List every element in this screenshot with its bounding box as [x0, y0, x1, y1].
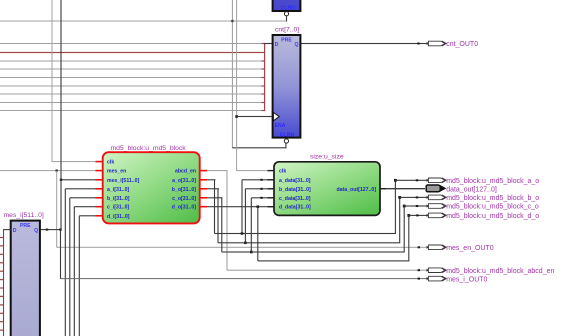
wire cnt Q to pin [301, 43, 427, 44]
svg-text:PRE: PRE [20, 223, 31, 229]
component md5_block:u_md5_block [96, 145, 208, 224]
svg-text:D: D [275, 42, 279, 48]
svg-text:clk: clk [279, 169, 286, 175]
wire cnt bit line 7 [0, 102, 262, 103]
pin md5 b_o [427, 195, 540, 202]
node mes_i collector stubs [0, 237, 3, 331]
wire a_o pin horizontal [395, 180, 427, 181]
node junction ena [235, 115, 238, 118]
node arrow c_o pin [416, 205, 418, 207]
svg-text:ENA: ENA [275, 123, 286, 129]
wire cnt feedback line q [0, 43, 262, 44]
wire clk vertical [52, 0, 53, 162]
ground bubble cnt clrn [284, 139, 288, 143]
node arrow d_o pin [416, 214, 418, 216]
wire bubble drop from top flip-flop [286, 16, 287, 22]
node corner a_o [394, 179, 397, 182]
wire d_o bottom run [258, 260, 410, 261]
node corner d_o [407, 214, 410, 217]
svg-text:a_data[31..0]: a_data[31..0] [279, 178, 311, 184]
wire d_o rise to pin [408, 215, 409, 261]
wire mes_en branch vertical [56, 171, 57, 248]
wire d_o pin horizontal [409, 215, 427, 216]
wire cnt bit line 5 [0, 86, 262, 87]
wire cnt bit line 6 [0, 94, 262, 95]
wire cnt bit line 4 [0, 77, 262, 78]
svg-text:mes_i[511..0]: mes_i[511..0] [107, 178, 140, 184]
node arrow mes_i pin [418, 278, 420, 280]
node junction mes_i branch [59, 228, 61, 230]
wire md5 mes_i horizontal [61, 179, 97, 180]
wire a_o from md5 [207, 179, 216, 180]
wire b_data rise [245, 189, 246, 243]
node arrow mes_en pin [418, 246, 420, 248]
node red collector stubs [262, 43, 266, 111]
wire red collector vertical [264, 43, 265, 111]
wire c_i horizontal [74, 206, 96, 207]
node corner b_o [398, 196, 401, 199]
wire b_i vertical [69, 198, 70, 336]
svg-text:md5_block:u_md5_block_abcd_en: md5_block:u_md5_block_abcd_en [446, 268, 554, 275]
wire cnt bubble drop [285, 143, 286, 148]
wire mes_i down branch [60, 230, 61, 279]
wire c_data rise [251, 198, 252, 252]
wire clrn vertical [232, 0, 233, 148]
node corner c_o [403, 205, 406, 208]
wire red selected net [0, 52, 265, 53]
wire c_o rise to pin [404, 206, 405, 252]
pin md5 c_o [427, 204, 539, 211]
node arrow a_o pin [416, 179, 418, 181]
pin md5 a_o [427, 178, 540, 185]
svg-text:a_o[31..0]: a_o[31..0] [172, 178, 196, 184]
node junction clrn [231, 20, 233, 22]
node arrow cnt Q [417, 43, 419, 45]
node arrow c_data [260, 197, 262, 199]
wire ena clk vertical [236, 0, 237, 171]
component size:u_size [268, 153, 387, 215]
node junction d branch [257, 205, 260, 208]
pin mes_en_OUT0 [427, 245, 494, 252]
svg-text:md5_block:u_md5_block_d_o: md5_block:u_md5_block_d_o [446, 213, 539, 220]
svg-text:D: D [13, 228, 17, 234]
wire b_o from md5 [207, 188, 220, 189]
svg-text:cnt[7..0]: cnt[7..0] [275, 27, 299, 34]
wire clrn net horizontal [0, 21, 287, 22]
register cnt[7..0] [273, 27, 301, 139]
wire c_o bottom run [222, 251, 405, 252]
svg-text:Q: Q [34, 228, 38, 234]
svg-text:CLRN: CLRN [281, 6, 296, 12]
node junction mes_en branch [56, 169, 58, 171]
svg-text:md5_block:u_md5_block: md5_block:u_md5_block [111, 145, 187, 152]
wire mes_i collector vertical [3, 230, 4, 336]
svg-text:Q: Q [295, 42, 299, 48]
svg-text:b_o[31..0]: b_o[31..0] [172, 187, 196, 193]
svg-text:cnt_OUT0: cnt_OUT0 [446, 41, 478, 48]
wire d_i horizontal [79, 215, 96, 216]
svg-text:c_data[31..0]: c_data[31..0] [279, 196, 311, 202]
svg-text:d_i[31..0]: d_i[31..0] [107, 214, 130, 220]
wire c_data horizontal [251, 197, 274, 198]
svg-text:b_data[31..0]: b_data[31..0] [279, 187, 311, 193]
wire a_o drop [214, 180, 215, 234]
wire cnt bit line 8 [0, 110, 262, 111]
svg-text:mes_en_OUT0: mes_en_OUT0 [446, 245, 494, 252]
svg-text:size:u_size: size:u_size [310, 153, 344, 160]
svg-text:data_out[127..0]: data_out[127..0] [337, 187, 377, 193]
wire abcd_en horizontal [207, 170, 228, 171]
wire c_o pin horizontal [404, 205, 427, 206]
svg-text:md5_block:u_md5_block_a_o: md5_block:u_md5_block_a_o [446, 178, 539, 185]
wire a_o bottom run [215, 233, 396, 234]
svg-text:mes_i_OUT0: mes_i_OUT0 [446, 276, 487, 283]
wire a_data horizontal [242, 179, 274, 180]
wire c_o from md5 [207, 197, 223, 198]
pin mes_i_OUT0 [427, 276, 488, 283]
wire b_o bottom run [218, 242, 400, 243]
wire mes_i Q output [40, 229, 61, 230]
svg-text:mes_i[511..0]: mes_i[511..0] [4, 212, 44, 219]
svg-text:PRE: PRE [281, 38, 292, 44]
wire abcd_en run to pin [227, 270, 427, 271]
register top flip-flop (cut) [273, 0, 301, 12]
wire b_data horizontal [245, 188, 274, 189]
wire b_o rise to pin [399, 197, 400, 242]
wire d_o drop [257, 207, 258, 261]
svg-text:d_o[31..0]: d_o[31..0] [172, 205, 196, 211]
wire mes_i D input [3, 229, 11, 230]
wire cnt D input [264, 43, 273, 44]
wire mes_en run to pin [57, 247, 428, 248]
wire a_data rise [241, 180, 242, 234]
svg-text:CLRN: CLRN [280, 133, 295, 139]
svg-text:md5_block:u_md5_block_c_o: md5_block:u_md5_block_c_o [446, 204, 539, 211]
wire clrn to cnt bubble [232, 147, 286, 148]
svg-text:clk: clk [107, 160, 114, 166]
wire c_o drop [221, 198, 222, 252]
wire cnt ena horizontal [237, 116, 272, 117]
wire md5 clk horizontal [52, 161, 97, 162]
wire mes_i run to pin [61, 278, 428, 279]
svg-text:data_out[127..0]: data_out[127..0] [446, 186, 497, 193]
node junction b branch [244, 242, 247, 245]
wire mes_i vertical dark [60, 0, 61, 230]
svg-text:abcd_en: abcd_en [175, 169, 196, 175]
pin data_out bus [426, 185, 497, 193]
pin md5 abcd_en [427, 268, 555, 275]
ground bubble top flip-flop [284, 12, 288, 16]
wire d_o straight to d_data [207, 206, 275, 207]
wire b_o pin horizontal [400, 197, 427, 198]
svg-text:mes_en: mes_en [107, 169, 126, 175]
register mes_i[511..0] [4, 212, 44, 336]
wire a_o rise to pin [395, 180, 396, 233]
svg-text:c_o[31..0]: c_o[31..0] [172, 196, 196, 202]
wire cnt bit line 3 [0, 69, 262, 70]
wire size clk horizontal [237, 170, 275, 171]
node arrow abcd_en pin [418, 269, 420, 271]
node arrow b_o pin [416, 196, 418, 198]
svg-text:a_i[31..0]: a_i[31..0] [107, 187, 129, 193]
wire c_i vertical [74, 207, 75, 336]
svg-text:b_i[31..0]: b_i[31..0] [107, 196, 130, 202]
svg-text:md5_block:u_md5_block_b_o: md5_block:u_md5_block_b_o [446, 195, 539, 202]
node arrow a_data [260, 179, 262, 181]
wire b_o drop [217, 189, 218, 243]
node junction c branch [250, 251, 253, 254]
wire d_i vertical [79, 216, 80, 336]
wire cnt bit line 2 [0, 61, 262, 62]
wire a_i horizontal [65, 188, 96, 189]
node arrow b_data [260, 188, 262, 190]
node junction mes_i port [60, 179, 62, 181]
pin md5 d_o [427, 213, 540, 220]
wire mes_en horizontal [0, 170, 96, 171]
node junction a branch [241, 232, 244, 235]
wire abcd_en vertical [227, 171, 228, 271]
wire data_out to pin [380, 188, 425, 189]
svg-text:d_data[31..0]: d_data[31..0] [279, 205, 311, 211]
node arrow mes_i Q [46, 229, 48, 231]
svg-text:c_i[31..0]: c_i[31..0] [107, 205, 129, 211]
pin cnt_OUT0 [427, 41, 479, 48]
wire b_i horizontal [70, 197, 97, 198]
wire a_i vertical [65, 189, 66, 336]
